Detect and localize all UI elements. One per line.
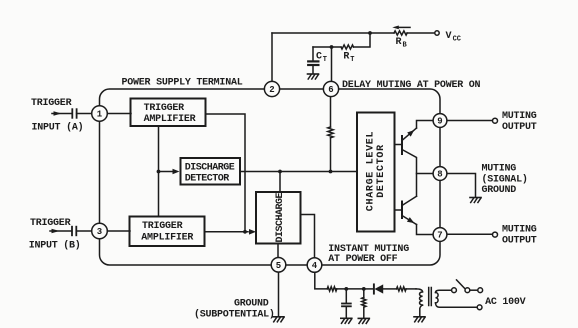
resistor RT (341, 45, 354, 49)
node resistor bottom (329, 170, 333, 174)
svg-text:R: R (343, 51, 349, 62)
transformer core (429, 288, 432, 306)
svg-text:INPUT (A): INPUT (A) (32, 122, 84, 134)
ground below CT (308, 74, 319, 79)
wire junction down to RT (354, 33, 371, 47)
svg-text:AMPLIFIER: AMPLIFIER (141, 232, 193, 243)
pin 3 (92, 223, 108, 239)
node trig B output junction (243, 230, 247, 234)
svg-text:DISCHARGE: DISCHARGE (275, 193, 286, 243)
svg-text:C: C (316, 52, 322, 63)
wire pin4 down and right (315, 272, 327, 289)
wire cap A to pin1 (77, 113, 93, 115)
wire trigger amp B output (205, 231, 248, 233)
label muting output top (502, 111, 537, 133)
label trigger input B (29, 218, 81, 252)
transistor Q1 base lead (395, 144, 403, 146)
transistor Q1 emitter (402, 121, 433, 141)
svg-text:MUTING: MUTING (502, 111, 537, 122)
resistor bottom 1 (327, 287, 337, 291)
pin 8 (433, 167, 447, 181)
svg-text:TRIGGER: TRIGGER (30, 218, 71, 229)
label instant muting (328, 244, 409, 265)
svg-text:INPUT (B): INPUT (B) (29, 240, 81, 252)
wire pin5 to subpotential ground (278, 272, 280, 316)
node resistor junction (362, 287, 366, 291)
svg-text:MUTING: MUTING (482, 164, 517, 175)
block discharge detector (181, 158, 241, 185)
svg-text:(SUBPOTENTIAL): (SUBPOTENTIAL) (194, 309, 275, 321)
capacitor bottom (342, 289, 351, 318)
wire to cap node (336, 288, 364, 290)
terminal AC bottom (477, 305, 482, 310)
node top rail junction (368, 31, 372, 35)
pin 7 (433, 228, 447, 242)
wire pin7 to muting output (447, 233, 492, 235)
block trigger amplifier B (130, 217, 205, 247)
block charge level detector (357, 113, 395, 232)
wire collectors to pin8 (417, 173, 433, 175)
ground subpotential (273, 317, 284, 322)
wire pin8 to signal ground (447, 174, 475, 198)
svg-text:POWER SUPPLY TERMINAL: POWER SUPPLY TERMINAL (122, 77, 243, 88)
svg-text:1: 1 (97, 110, 103, 120)
wire resistor to transformer (406, 288, 416, 290)
wire trigger amp A to trigger amp B vertical (158, 127, 160, 216)
transformer secondary (436, 290, 478, 307)
wire discharge detector output (241, 171, 357, 173)
label muting output bottom (502, 225, 537, 247)
svg-text:DISCHARGE: DISCHARGE (185, 162, 235, 173)
terminal muting output bottom (493, 232, 498, 237)
transistor Q2 base lead (395, 209, 403, 211)
input A arrow (52, 111, 71, 116)
svg-text:DETECTOR: DETECTOR (376, 144, 387, 198)
wire cap B to pin3 (76, 230, 92, 232)
pin 4 (307, 258, 322, 273)
wire pin2 to top rail (271, 33, 273, 81)
terminal Vcc (435, 31, 439, 35)
pin 6 (323, 81, 338, 96)
label CT (316, 52, 327, 65)
transformer primary (416, 289, 423, 317)
label RT (343, 51, 354, 64)
wire pin3 to trigger amplifier B (107, 230, 130, 232)
input B arrow (50, 229, 71, 234)
capacitor input B (72, 227, 76, 236)
arrow into discharge detector (159, 169, 180, 175)
transistor Q2 collector (402, 196, 417, 205)
wire RB to Vcc terminal (407, 32, 435, 34)
svg-text:(SIGNAL): (SIGNAL) (482, 174, 528, 186)
svg-text:5: 5 (276, 261, 281, 271)
svg-text:T: T (350, 56, 354, 64)
svg-text:T: T (323, 56, 327, 64)
block discharge (256, 192, 301, 244)
svg-text:7: 7 (437, 231, 442, 241)
label muting signal ground (482, 164, 528, 197)
label trigger input A (31, 98, 83, 134)
node discharge top branch (278, 170, 282, 174)
terminal muting output top (493, 118, 498, 123)
svg-text:2: 2 (269, 85, 274, 95)
terminal AC top (478, 288, 483, 293)
ground signal (470, 198, 481, 203)
block trigger amplifier A (131, 99, 206, 127)
wire pin1 to trigger amplifier A (107, 113, 131, 115)
wire to discharge block top (279, 172, 281, 193)
wire node to diode (364, 288, 374, 290)
svg-text:MUTING: MUTING (502, 225, 537, 236)
ground below resistor (358, 318, 369, 323)
svg-text:8: 8 (437, 170, 442, 180)
switch blade (457, 280, 466, 289)
resistor bottom 2 (397, 287, 407, 291)
arrow into discharge block (249, 229, 256, 235)
svg-text:6: 6 (328, 85, 333, 95)
svg-text:GROUND: GROUND (234, 299, 269, 310)
svg-text:CHARGE LEVEL: CHARGE LEVEL (365, 131, 376, 211)
node cap junction (344, 287, 348, 291)
pin 1 (92, 106, 108, 122)
svg-text:TRIGGER: TRIGGER (31, 98, 72, 109)
capacitor CT (308, 47, 318, 74)
wire contact to AC terminal (470, 289, 478, 291)
pin 5 (271, 258, 286, 273)
transistor Q1 collector (402, 150, 417, 197)
svg-text:V: V (446, 31, 452, 42)
wire diode to resistor (383, 288, 396, 290)
svg-text:OUTPUT: OUTPUT (502, 122, 537, 133)
wire pin9 to muting output (447, 120, 492, 122)
svg-text:CC: CC (453, 35, 461, 43)
switch contact terminal (465, 288, 470, 293)
capacitor input A (72, 109, 76, 118)
transistor Q2 base bar (401, 202, 403, 219)
IC package outline (100, 89, 441, 265)
arrow over RB (392, 26, 410, 30)
svg-text:DETECTOR: DETECTOR (185, 173, 230, 184)
transistor Q1 base bar (401, 136, 403, 154)
label RB (396, 37, 408, 50)
resistor bottom vertical (362, 289, 366, 318)
wire CT node to pin6 (331, 47, 333, 82)
svg-text:3: 3 (97, 227, 102, 237)
wire RT to CT node (313, 46, 341, 48)
diode (374, 284, 383, 293)
pin 2 (264, 81, 279, 96)
svg-text:4: 4 (312, 261, 318, 271)
wire top rail (272, 32, 394, 34)
svg-text:OUTPUT: OUTPUT (502, 236, 537, 247)
svg-text:R: R (396, 37, 402, 48)
svg-text:TRIGGER: TRIGGER (142, 221, 183, 232)
label VCC (446, 31, 462, 44)
svg-text:GROUND: GROUND (482, 185, 517, 196)
ground below capacitor (341, 318, 352, 323)
label ground subpotential (194, 299, 275, 321)
node discharge detector branch (157, 170, 161, 174)
svg-text:AC 100V: AC 100V (485, 297, 526, 308)
svg-text:DELAY MUTING AT POWER ON: DELAY MUTING AT POWER ON (342, 80, 481, 91)
svg-text:B: B (403, 41, 408, 49)
svg-text:TRIGGER: TRIGGER (144, 103, 185, 114)
node CT junction (330, 45, 334, 49)
wire resistor to node (330, 138, 332, 172)
resistor RB (394, 31, 407, 35)
switch pole terminal (452, 288, 457, 293)
svg-text:9: 9 (437, 117, 442, 127)
svg-text:AT POWER OFF: AT POWER OFF (328, 254, 397, 265)
wire discharge block right to pin4 (301, 215, 315, 258)
wire discharge block bottom to pin5 (277, 244, 279, 258)
resistor below pin6 (328, 127, 333, 138)
pin 9 (433, 114, 447, 128)
transistor Q2 emitter (402, 216, 433, 235)
wire pin6 down to resistor (330, 97, 332, 127)
svg-text:AMPLIFIER: AMPLIFIER (144, 114, 196, 125)
ground below transformer (414, 317, 425, 322)
wire trigger amp A output (206, 114, 245, 232)
